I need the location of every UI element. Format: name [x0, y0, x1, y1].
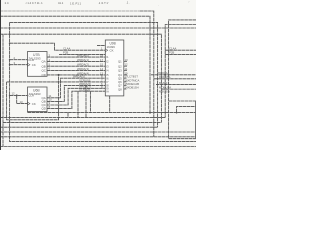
svg-text:P2B: P2B — [169, 51, 174, 55]
svg-text:QD: QD — [42, 73, 46, 77]
wire RDDATA — [154, 78, 196, 80]
svg-text:XDB1SH: XDB1SH — [128, 85, 139, 89]
wire U6B CK input — [17, 95, 28, 103]
U6B clock triangle — [28, 102, 30, 105]
wire left vertical x6.6 — [7, 75, 59, 120]
svg-text:Q1: Q1 — [118, 60, 122, 64]
svg-text:18: 18 — [100, 54, 104, 58]
wire top bus T1 faint — [0, 10, 140, 12]
svg-text:CK: CK — [110, 48, 114, 52]
wire cascade QC up — [47, 88, 105, 105]
faint top text row — [4, 0, 190, 7]
svg-text:Q8: Q8 — [118, 87, 122, 91]
svg-text:11: 11 — [125, 67, 128, 71]
wire WRDCA — [151, 74, 196, 76]
wire right stub B — [165, 25, 196, 118]
svg-text:RDDATA-: RDDATA- — [159, 75, 171, 79]
wire right stub A — [169, 20, 196, 139]
svg-text:14: 14 — [100, 67, 104, 71]
shift register U9B box — [105, 40, 124, 96]
counter U6B box — [28, 87, 48, 112]
U9B right pin numbers — [125, 58, 129, 89]
svg-text:13: 13 — [125, 58, 129, 62]
counter U7B labels — [28, 53, 46, 77]
svg-text:13: 13 — [20, 100, 24, 104]
svg-text:.: . — [158, 4, 159, 7]
U9B input pin labels — [106, 55, 109, 93]
svg-text:QC: QC — [42, 69, 46, 73]
svg-text:IA: IA — [106, 89, 109, 93]
wire net C1AA right — [165, 49, 196, 51]
svg-text:WRDA(1): WRDA(1) — [77, 58, 89, 62]
wire net P2B left — [59, 53, 105, 55]
wire bottom B3 — [0, 126, 158, 128]
junction dots — [9, 42, 178, 123]
wire left vertical x3 — [2, 34, 4, 146]
wire data bus D1 — [47, 61, 105, 63]
wire bottom B1 — [28, 112, 196, 114]
scan border left — [0, 0, 1, 150]
svg-text:.': .' — [188, 0, 190, 4]
svg-text:CLR: CLR — [28, 94, 34, 98]
U6B pin numbers — [12, 92, 53, 109]
wire left vertical x9.6 — [10, 22, 196, 141]
svg-text:CK: CK — [32, 63, 36, 67]
svg-text:Q3: Q3 — [118, 69, 122, 73]
net labels C1AA P2B right — [169, 47, 176, 55]
wire bottom B4 — [0, 131, 196, 133]
svg-text:CLR: CLR — [28, 58, 34, 62]
svg-text:SCRU2B: SCRU2B — [79, 88, 90, 92]
wire vertical drop x86 — [85, 85, 87, 117]
wire U6B CLR input — [10, 94, 28, 96]
scan border right — [194, 101, 197, 139]
wire data bus D3 — [47, 69, 105, 71]
wire bottom B2 — [0, 117, 165, 119]
wire U6B bottom pin — [27, 112, 29, 113]
wire cascade QD up — [47, 91, 105, 108]
svg-text:CK: CK — [32, 102, 36, 106]
wire top bus T1 — [140, 11, 154, 137]
wire vertical drop x90.4 — [89, 91, 91, 112]
svg-text:12: 12 — [12, 92, 16, 96]
wire data bus D0 — [47, 56, 105, 58]
svg-text:WRDA(3): WRDA(3) — [77, 67, 89, 71]
svg-text:BLZE17: BLZE17 — [159, 81, 170, 85]
wire right step y106.4 — [177, 106, 196, 112]
wire net from left x6.6 — [7, 81, 106, 83]
svg-text:QD: QD — [42, 107, 46, 111]
U9B right pin stubs — [124, 62, 127, 89]
counter U6B labels — [28, 89, 46, 111]
U9B left pin numbers — [100, 47, 104, 89]
wire U9B bottom pin — [109, 96, 111, 113]
wire U7B CLR input — [10, 59, 28, 61]
svg-text:1 E. P1 1: 1 E. P1 1 — [70, 2, 82, 6]
wire vertical drop x78 — [77, 91, 79, 117]
net labels WRDA bus — [73, 54, 91, 92]
wire cascade QA up — [47, 78, 105, 98]
net labels right side — [157, 71, 171, 93]
svg-text:.r 1.4 C.7 11 .1: .r 1.4 C.7 11 .1 — [25, 1, 43, 5]
wire top bus T2 — [0, 16, 150, 112]
U9B clock triangle — [105, 49, 107, 52]
wire cascade QB up — [47, 85, 105, 101]
connector box bottom right bottom edge — [169, 138, 196, 140]
svg-text:17: 17 — [100, 58, 104, 62]
wire net C1AA left — [10, 43, 106, 50]
wire bottom B5 — [0, 136, 196, 138]
U7B clock triangle — [28, 63, 30, 66]
svg-text:WRDA(0): WRDA(0) — [77, 54, 89, 58]
wire top bus T4 — [0, 27, 196, 29]
wire MOBUSA — [162, 88, 196, 90]
svg-text::1 4: :1 4 — [4, 1, 9, 5]
svg-text:P2B: P2B — [63, 51, 68, 55]
wire U7B CK input — [10, 64, 28, 66]
svg-text:.1 .: .1 . — [126, 1, 130, 5]
net labels right of U9B — [128, 75, 140, 90]
U7B pin numbers — [14, 53, 51, 70]
connector box bottom right top edge — [169, 100, 196, 102]
wire BLZE — [156, 84, 196, 86]
net labels C1AA P2B left — [63, 47, 70, 55]
wire data bus D4 — [47, 74, 105, 76]
U9B output pin labels — [118, 60, 122, 92]
svg-text:QA: QA — [42, 60, 46, 64]
counter U7B box — [28, 52, 48, 77]
wire bottom B6 — [0, 146, 196, 148]
svg-text:.1 r1 T 1': .1 r1 T 1' — [98, 1, 109, 5]
wire top bus T3 — [10, 22, 158, 127]
wire U9B pin1 stub — [97, 45, 105, 47]
wire net P2B right — [165, 53, 196, 55]
wire data bus D2 — [47, 65, 105, 67]
U9B labels — [107, 41, 116, 52]
svg-text:41.1: 41.1 — [58, 1, 64, 5]
svg-text:MBUS/A: MBUS/A — [159, 90, 170, 94]
wire stub x68 — [67, 113, 69, 118]
wire top bus T5 — [0, 34, 161, 122]
